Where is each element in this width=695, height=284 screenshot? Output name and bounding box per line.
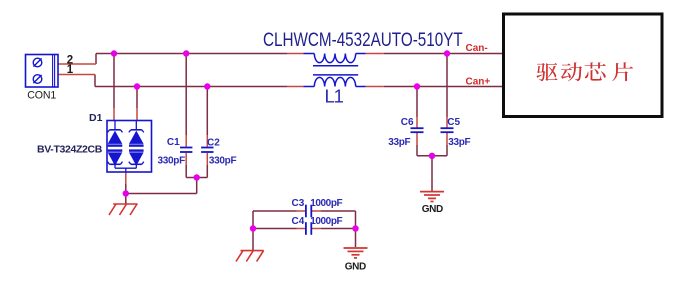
svg-text:33pF: 33pF xyxy=(448,137,470,148)
svg-text:330pF: 330pF xyxy=(158,156,186,167)
svg-text:CLHWCM-4532AUTO-510YT: CLHWCM-4532AUTO-510YT xyxy=(263,28,463,50)
svg-text:C1: C1 xyxy=(167,137,180,148)
svg-text:GND: GND xyxy=(422,204,443,215)
svg-text:Can-: Can- xyxy=(466,43,488,54)
svg-text:1: 1 xyxy=(67,64,74,76)
svg-text:GND: GND xyxy=(345,261,366,272)
svg-text:D1: D1 xyxy=(89,112,103,124)
svg-text:33pF: 33pF xyxy=(388,137,410,148)
svg-text:C4: C4 xyxy=(292,216,305,227)
svg-text:Can+: Can+ xyxy=(466,76,491,87)
svg-text:1000pF: 1000pF xyxy=(310,216,342,227)
svg-text:CON1: CON1 xyxy=(27,89,56,101)
svg-text:C2: C2 xyxy=(207,137,220,148)
svg-text:C6: C6 xyxy=(401,117,414,128)
svg-text:C3: C3 xyxy=(292,198,305,209)
svg-text:BV-T324Z2CB: BV-T324Z2CB xyxy=(37,143,103,155)
svg-text:C5: C5 xyxy=(447,117,460,128)
svg-text:330pF: 330pF xyxy=(209,156,237,167)
svg-text:1000pF: 1000pF xyxy=(310,198,342,209)
svg-text:L1: L1 xyxy=(325,86,344,107)
